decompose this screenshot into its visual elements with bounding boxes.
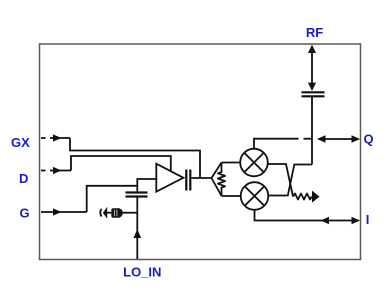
resistor R1 vertical [218, 163, 225, 197]
wire I double arrow heads [321, 217, 330, 225]
svg-text:RF: RF [306, 25, 323, 40]
wire GX dashed input [41, 137, 49, 139]
svg-text:LO_IN: LO_IN [123, 265, 161, 280]
wire D dashed input [41, 170, 49, 172]
capacitor C2 LO coupling [126, 193, 148, 197]
wire RF vertical double arrow [311, 47, 313, 88]
svg-text:Q: Q [364, 132, 374, 147]
outer box (device boundary) [40, 44, 361, 260]
mixer M1 (top) [240, 149, 268, 177]
wire D input with arrow [50, 170, 71, 172]
svg-text:I: I [366, 212, 370, 227]
node splitter diagonals [212, 163, 222, 197]
wire Q feed from top mixer [254, 139, 299, 149]
svg-text:GX: GX [11, 135, 30, 150]
wire cap node to amplifier input [137, 179, 156, 193]
op-amp U1 (amplifier triangle) [156, 164, 183, 192]
wire GX feedback to amp output node [70, 138, 200, 178]
wire LO vertical [136, 197, 138, 260]
wire M2 right up to RF node (crossing) [268, 165, 312, 196]
svg-text:D: D [19, 171, 28, 186]
wire Q double arrow [319, 138, 359, 140]
wire I output line [255, 210, 359, 221]
wire GX input with arrow [50, 137, 70, 139]
wire bottom rail to mixer M2 [222, 195, 241, 197]
capacitor C1 series output [186, 170, 190, 191]
wire G input with arrow [41, 211, 87, 213]
inductor bead L1 with left arrow [100, 209, 101, 217]
wire G up and over to coupling cap node [87, 186, 138, 212]
wire M1 right to termination (crossing) [268, 164, 293, 197]
resistor R2 horizontal termination [293, 194, 312, 200]
wire bead to LO line [123, 212, 138, 214]
wire top rail to mixer M1 [222, 162, 241, 164]
arrow LO up [134, 229, 142, 238]
capacitor C_RF [302, 92, 325, 96]
wire D gain-control to amp top edge [71, 156, 171, 171]
mixer M2 (bottom) [241, 182, 269, 210]
arrow termination right [312, 191, 320, 203]
svg-text:G: G [20, 206, 30, 221]
wire RF down to mixer crossing [311, 97, 313, 165]
wire amp output to splitter node [192, 177, 212, 179]
wire Q feed dash [304, 138, 312, 140]
